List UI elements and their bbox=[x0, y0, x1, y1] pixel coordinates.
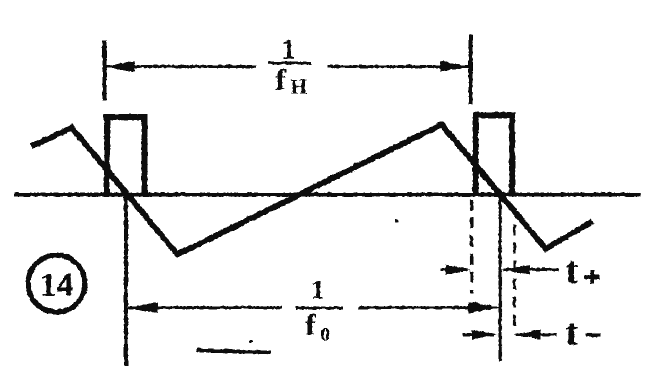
axis (zero reference line) bbox=[14, 192, 640, 196]
dashed extension line at pulse P2 leading edge bbox=[469, 199, 472, 293]
1/f0 dimension left tick (vertical line at first zero crossing) bbox=[124, 192, 127, 365]
pulse P2 bbox=[475, 115, 512, 195]
solid extension line at second zero crossing bbox=[498, 196, 501, 361]
1/fH left arrowhead bbox=[104, 61, 134, 71]
speck near stray mark bbox=[250, 340, 253, 343]
stray underline mark bbox=[196, 350, 270, 353]
svg-text:t: t bbox=[565, 249, 578, 291]
t- dimension left arrow bbox=[462, 333, 494, 336]
svg-text:f: f bbox=[305, 308, 316, 341]
svg-text:0: 0 bbox=[320, 324, 330, 345]
1/fH right arrowhead bbox=[440, 61, 470, 71]
1/f0 dimension line right segment bbox=[358, 306, 497, 309]
1/fH dimension right tick bbox=[468, 34, 471, 104]
svg-text:1: 1 bbox=[281, 34, 295, 65]
pulse P1 bbox=[107, 117, 145, 195]
dashed extension line at pulse P2 trailing edge bbox=[512, 224, 515, 330]
svg-text:14: 14 bbox=[39, 266, 73, 303]
figure number circle bbox=[28, 255, 85, 312]
speck near middle bbox=[394, 218, 397, 221]
1/fH dimension left tick bbox=[102, 40, 105, 100]
t+ dimension right arrow bbox=[503, 268, 558, 271]
svg-text:H: H bbox=[290, 74, 306, 98]
svg-text:f: f bbox=[275, 63, 286, 96]
1/fH dimension line right segment bbox=[327, 65, 468, 68]
sawtooth waveform bbox=[31, 124, 592, 254]
1/f0 left arrowhead bbox=[126, 302, 157, 312]
t+ dimension left arrow bbox=[440, 268, 468, 271]
t- dimension right arrow bbox=[516, 333, 556, 336]
1/f0 dimension line left segment bbox=[128, 306, 282, 309]
1/f0 right arrowhead bbox=[468, 302, 500, 313]
svg-text:t: t bbox=[565, 311, 578, 353]
svg-text:1: 1 bbox=[311, 275, 324, 304]
1/fH dimension line left segment bbox=[106, 65, 256, 68]
